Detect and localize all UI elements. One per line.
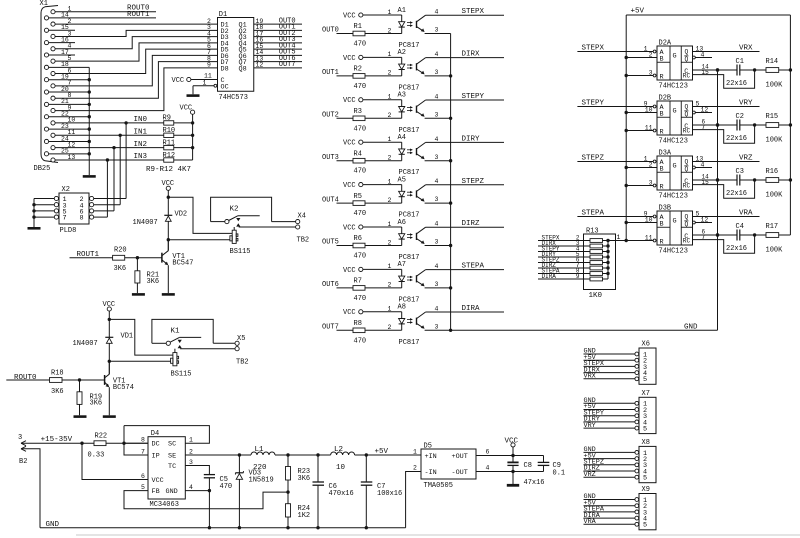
wire X1 pin15 stub — [49, 29, 75, 31]
svg-text:RC: RC — [683, 73, 691, 80]
wire opto emitter bus vertical — [450, 34, 452, 331]
X1 pin 16 — [44, 36, 69, 44]
connector X6 body — [639, 341, 656, 385]
svg-text:K2: K2 — [230, 206, 239, 214]
wire X1 pin24 to ground bus — [49, 140, 91, 143]
wire K2 to X4 — [239, 222, 296, 227]
svg-text:1K2: 1K2 — [298, 512, 311, 520]
wire/net OUT0 from D1 Q1 — [254, 17, 302, 25]
X1 pin 21 — [44, 98, 69, 106]
R13 element 5 — [590, 261, 610, 265]
wire +5V to D3B pin R — [608, 234, 656, 242]
wire D4 SC top loop — [123, 426, 125, 444]
X9 pin 5 net VRA — [584, 518, 648, 530]
wire IN2 to X2 pin 6 — [113, 148, 115, 211]
svg-text:VD1: VD1 — [121, 332, 134, 340]
svg-text:1: 1 — [388, 178, 392, 185]
wire/net STEPY to R13 pin 4 — [538, 246, 590, 253]
wire/net OUT0 to R1 — [322, 27, 353, 35]
X6 pin 1 net GND — [584, 348, 648, 360]
svg-text:Q: Q — [685, 111, 689, 118]
svg-text:BS115: BS115 — [171, 370, 192, 378]
svg-text:1: 1 — [644, 45, 648, 52]
wire VCC to A3 pin1 — [363, 94, 402, 101]
svg-text:10: 10 — [645, 106, 653, 113]
svg-text:X6: X6 — [642, 341, 650, 349]
svg-text:2: 2 — [413, 465, 417, 472]
svg-text:RC: RC — [683, 238, 691, 245]
X7 pin 2 net +5V — [584, 403, 648, 415]
svg-text:OUT4: OUT4 — [322, 196, 339, 204]
wire/net OUT2 from D1 Q3 — [254, 30, 302, 38]
wire X1 pin16 stub — [49, 42, 75, 44]
svg-text:VRY: VRY — [739, 100, 753, 108]
X9 pin 3 net STEPA — [584, 506, 648, 518]
svg-text:VCC: VCC — [343, 140, 356, 148]
wire IN1 to X2 pin 4 — [119, 135, 121, 204]
wire A4 pin3 to emitter bus — [425, 154, 453, 163]
svg-text:A3: A3 — [398, 92, 406, 100]
wire X1 pin6 to D1 input D5 — [55, 49, 217, 73]
X1 pin 25 — [44, 148, 69, 156]
capacitor C8 47x16 — [507, 456, 544, 488]
dc-dc U D5 TMA0505 body — [413, 442, 490, 490]
R13 element 4 — [590, 255, 610, 259]
svg-text:470: 470 — [354, 295, 367, 303]
X1 pin 15 — [44, 24, 69, 32]
wire VCC to BS115 drain path (K1) — [109, 319, 173, 355]
svg-text:R8: R8 — [354, 320, 362, 328]
wire X1 ground bus vertical — [49, 67, 90, 175]
svg-text:D2A: D2A — [659, 39, 672, 47]
wire X1 pin9 to D1 input D8 — [55, 68, 217, 111]
D1 C pin 11 with VCC terminal — [172, 73, 225, 86]
svg-text:1: 1 — [644, 155, 648, 162]
svg-text:IN3: IN3 — [134, 153, 148, 161]
wire X1 pin2 to D1 input D1 — [55, 23, 217, 25]
svg-text:1: 1 — [388, 221, 392, 228]
wire/net VRZ from D3A pin Q — [693, 155, 760, 163]
opto-coupler A2 PC817 — [398, 49, 426, 92]
wire D2B pin C to timing cap — [693, 118, 738, 126]
wire D4 SE output to rail — [185, 454, 251, 456]
X8 pin 5 net VRZ — [584, 471, 648, 483]
one-shot U D3B 74HC123 body — [657, 204, 693, 255]
svg-text:B: B — [660, 166, 664, 174]
svg-text:74HC123: 74HC123 — [659, 193, 688, 201]
wire/net OUT3 from D1 Q4 — [254, 36, 302, 44]
wire K1 to X5 — [180, 343, 235, 348]
svg-text:BC574: BC574 — [113, 384, 134, 392]
svg-text:R3: R3 — [354, 108, 362, 116]
svg-text:Q: Q — [685, 104, 689, 111]
X1 pin 5 — [51, 55, 72, 63]
wire/net OUT1 from D1 Q2 — [254, 24, 302, 32]
svg-text:VRX: VRX — [584, 373, 596, 381]
svg-text:R9-R12 4K7: R9-R12 4K7 — [146, 166, 191, 174]
D2B pin Qbar stub — [693, 106, 713, 114]
wire/net IN3 from X1 pin13 — [55, 153, 164, 162]
wire/net STEPY input to D2B pin A — [577, 100, 656, 108]
X2 pin 4 — [80, 202, 121, 210]
connector X1 DB25 body — [34, 0, 59, 173]
mosfet BS115 (K1) — [171, 349, 192, 379]
svg-text:VRA: VRA — [584, 518, 597, 526]
svg-text:9: 9 — [207, 62, 211, 69]
wire/net VRY from D2B pin Q — [693, 100, 760, 108]
wire A1 pin3 to emitter bus — [425, 27, 451, 34]
wire D3A pin RC loop — [693, 180, 755, 198]
ground symbol below X2 — [28, 227, 41, 230]
wire VCC to BS115 drain path (K2) — [168, 197, 232, 233]
svg-text:4: 4 — [435, 51, 439, 58]
D3A pin Qbar stub — [693, 161, 713, 169]
svg-text:RC: RC — [683, 183, 691, 190]
svg-text:Q: Q — [685, 214, 689, 221]
svg-text:11: 11 — [645, 124, 653, 131]
wire +5V to D2B pin B — [625, 106, 658, 114]
svg-text:B2: B2 — [19, 458, 27, 466]
svg-text:7: 7 — [63, 215, 67, 223]
svg-text:A7: A7 — [398, 261, 406, 269]
wire/net OUT7 from D1 Q8 — [254, 61, 302, 69]
svg-text:R11: R11 — [163, 139, 176, 147]
svg-text:10: 10 — [336, 464, 346, 472]
svg-text:1: 1 — [413, 449, 417, 456]
X1 pin 6 — [51, 67, 72, 75]
latch U D1 74HC573 body — [218, 11, 254, 102]
wire X1 pin5 to D1 input D4 — [55, 43, 217, 61]
X2 pin 2 — [80, 196, 127, 204]
wire/net DIRX to R13 pin 3 — [538, 240, 590, 247]
X2 pin 3 — [34, 202, 67, 210]
svg-text:C2: C2 — [736, 113, 744, 121]
net +15-35V input line — [21, 436, 94, 445]
VCC terminal for opto A4 — [343, 140, 363, 148]
svg-text:4: 4 — [435, 305, 439, 312]
svg-text:D1: D1 — [219, 11, 227, 19]
svg-text:R13: R13 — [586, 227, 599, 235]
X8 pin 1 net GND — [584, 446, 648, 458]
wire D5 +OUT to VCC net — [476, 454, 544, 457]
wire/net OUT6 to R7 — [322, 281, 353, 289]
X1 pin 18 — [44, 61, 69, 69]
svg-text:4: 4 — [435, 178, 439, 185]
wire +5V to D3A pin B — [625, 161, 658, 169]
ground symbol at D1 OC — [187, 94, 200, 97]
opto-coupler A8 PC817 — [398, 304, 426, 347]
svg-text:1: 1 — [388, 306, 392, 313]
one-shot U D2A 74HC123 body — [657, 39, 693, 90]
svg-text:4: 4 — [701, 51, 705, 58]
svg-text:X2: X2 — [62, 186, 70, 194]
svg-text:GND: GND — [684, 324, 698, 332]
svg-text:VCC: VCC — [343, 182, 356, 190]
svg-text:OUT5: OUT5 — [322, 239, 339, 247]
wire +15-35V to D4 VCC pin — [82, 443, 148, 479]
wire ground-return vertical through C pins — [717, 70, 719, 235]
X2 pin 1 — [34, 196, 67, 204]
VCC output terminal — [505, 438, 519, 456]
svg-text:47x16: 47x16 — [524, 479, 545, 487]
X6 pin 3 net STEPX — [584, 360, 648, 372]
wire X1 pin7 to D1 input D6 — [55, 55, 217, 86]
wire +5V to D2B pin R — [625, 124, 656, 132]
svg-text:5: 5 — [643, 376, 647, 384]
wire D3B pin C to timing cap — [693, 228, 738, 236]
svg-text:2: 2 — [388, 282, 392, 289]
one-shot U D3A 74HC123 body — [657, 149, 693, 200]
X1 pin 3 — [51, 30, 72, 38]
X1 pin 23 — [44, 123, 69, 131]
wire A5 pin3 to emitter bus — [425, 196, 453, 205]
svg-text:OUT7: OUT7 — [322, 324, 339, 332]
connector X5 / TB2 — [235, 335, 249, 366]
svg-text:+15-35V: +15-35V — [41, 436, 73, 444]
wire A6 pin3 to emitter bus — [425, 239, 453, 248]
svg-text:1: 1 — [203, 79, 207, 86]
wire +5V to D3A pin R — [625, 179, 656, 187]
opto-coupler A1 PC817 — [398, 7, 426, 50]
wire A4 pin4 output net DIRY — [426, 135, 504, 143]
svg-text:3: 3 — [435, 239, 439, 246]
svg-text:1: 1 — [388, 9, 392, 16]
resistor R14 100K — [766, 58, 793, 89]
svg-text:R5: R5 — [354, 193, 362, 201]
resistor R9 — [163, 115, 193, 125]
svg-text:VCC: VCC — [343, 309, 356, 317]
svg-text:D3B: D3B — [659, 204, 672, 212]
svg-text:470: 470 — [354, 83, 367, 91]
svg-text:10: 10 — [645, 216, 653, 223]
capacitor C4 22x16 — [726, 223, 766, 253]
svg-text:IN2: IN2 — [134, 141, 148, 149]
svg-text:2: 2 — [649, 161, 653, 168]
wire A2 pin3 to emitter bus — [425, 69, 453, 78]
D3B pin Qbar stub — [693, 216, 713, 224]
X1 pin 2 — [51, 18, 72, 26]
wire/net OUT6 from D1 Q7 — [254, 55, 302, 63]
wire X1 pin4 to D1 input D3 — [55, 37, 217, 49]
junction ground-return at D3A — [716, 178, 719, 181]
svg-text:-IN: -IN — [425, 469, 437, 477]
wire D2A pin RC loop — [693, 70, 755, 88]
svg-text:VRZ: VRZ — [739, 155, 753, 163]
svg-text:GND: GND — [166, 488, 178, 496]
svg-text:2: 2 — [388, 112, 392, 119]
svg-text:VCC: VCC — [152, 477, 164, 485]
X1 pin 9 — [51, 104, 72, 112]
D1 pin row D2/Q2 — [207, 24, 263, 36]
capacitor C3 22x16 — [726, 168, 766, 198]
D1 pin row D6/Q6 — [207, 49, 263, 61]
X1 pin 19 — [44, 73, 69, 81]
wire X1 pin14 ROUT1 net — [49, 11, 156, 19]
connector X4 / TB2 — [296, 212, 310, 244]
svg-text:2: 2 — [388, 27, 392, 34]
wire/net IN0 from X1 pin10 — [55, 116, 164, 125]
X1 pin 10 — [51, 117, 76, 125]
capacitor C2 22x16 — [726, 113, 766, 143]
svg-text:3K6: 3K6 — [114, 265, 127, 273]
R13 element 8 — [590, 277, 608, 281]
svg-text:3: 3 — [435, 154, 439, 161]
svg-text:8: 8 — [80, 215, 84, 223]
svg-text:TB2: TB2 — [236, 358, 249, 366]
wire/net STEPX to R13 pin 2 — [538, 235, 590, 242]
svg-text:A5: A5 — [398, 176, 406, 184]
svg-text:8: 8 — [141, 437, 145, 444]
resistor R7 470 — [353, 278, 402, 303]
svg-text:R: R — [660, 128, 664, 136]
wire VCC to A4 pin1 — [363, 136, 402, 143]
svg-text:100K: 100K — [766, 81, 784, 89]
svg-text:VCC: VCC — [343, 12, 356, 20]
svg-text:PC817: PC817 — [399, 339, 420, 347]
svg-text:C1: C1 — [736, 58, 744, 66]
resistor R4 470 — [353, 150, 402, 175]
svg-text:MC34063: MC34063 — [150, 501, 179, 509]
svg-text:VCC: VCC — [343, 267, 356, 275]
svg-text:15: 15 — [702, 179, 710, 186]
wire D4 FB feedback loop — [124, 491, 288, 509]
svg-text:R12: R12 — [163, 152, 176, 160]
wire D3A pin C to timing cap — [693, 173, 738, 181]
wire/net STEPZ input to D3A pin A — [577, 155, 656, 163]
resistor R11 — [163, 139, 193, 149]
svg-text:22x16: 22x16 — [726, 190, 747, 198]
svg-text:STEPZ: STEPZ — [462, 178, 485, 186]
wire VT1 collector to BS115 gate (K2) — [168, 239, 230, 241]
svg-text:X4: X4 — [298, 212, 306, 220]
svg-text:470: 470 — [354, 337, 367, 345]
diode VD1 1N4007 — [73, 332, 134, 374]
wire +5V to D2A pin B — [625, 51, 658, 59]
svg-text:DIRA: DIRA — [462, 305, 481, 313]
X1 pin 17 — [44, 49, 69, 57]
svg-text:2: 2 — [388, 239, 392, 246]
wire/net OUT5 from D1 Q6 — [254, 49, 302, 57]
net ROUT0 to R18 — [6, 374, 49, 382]
svg-text:SC: SC — [168, 441, 176, 449]
svg-text:R20: R20 — [114, 246, 127, 254]
svg-text:+5V: +5V — [631, 8, 645, 16]
wire VCC to A7 pin1 — [363, 263, 402, 270]
connector X7 body — [639, 390, 656, 434]
svg-text:OUT3: OUT3 — [322, 154, 339, 162]
svg-text:5: 5 — [696, 210, 700, 217]
svg-text:OUT7: OUT7 — [279, 61, 296, 69]
wire X1 pin3 to D1 input D2 — [55, 30, 217, 36]
svg-text:+IN: +IN — [425, 453, 437, 461]
svg-text:4: 4 — [435, 93, 439, 100]
svg-text:BS115: BS115 — [230, 248, 251, 256]
VCC terminal above R9-R12 — [180, 104, 195, 160]
wire X1 pin17 stub — [49, 54, 75, 56]
wire D2A pin C to timing cap — [693, 63, 738, 71]
X8 pin 3 net STEPZ — [584, 459, 648, 471]
svg-text:A1: A1 — [398, 7, 406, 15]
wire/net OUT2 to R3 — [322, 112, 353, 120]
svg-text:BC547: BC547 — [172, 260, 193, 268]
svg-text:STEPZ: STEPZ — [582, 155, 605, 163]
svg-text:RC: RC — [683, 128, 691, 135]
svg-text:2: 2 — [388, 324, 392, 331]
svg-text:A2: A2 — [398, 49, 406, 57]
X1 pin 1 — [51, 6, 72, 14]
wire D5 -IN to ground rail — [406, 472, 421, 528]
mosfet BS115 (K2) — [230, 227, 251, 256]
resistor R22 0.33 — [88, 433, 149, 460]
svg-text:74HC573: 74HC573 — [219, 94, 248, 102]
svg-text:B: B — [660, 221, 664, 229]
wire/net OUT4 to R5 — [322, 196, 353, 204]
svg-text:22x16: 22x16 — [726, 135, 747, 143]
svg-text:1: 1 — [388, 94, 392, 101]
svg-text:OUT2: OUT2 — [322, 112, 339, 120]
svg-text:1N4007: 1N4007 — [133, 219, 158, 227]
svg-text:470: 470 — [354, 125, 367, 133]
connector TB2 ground input arrow — [19, 446, 40, 527]
svg-text:74HC123: 74HC123 — [659, 83, 688, 91]
X1 pin 24 — [44, 135, 69, 143]
svg-text:2: 2 — [388, 197, 392, 204]
svg-text:5: 5 — [696, 100, 700, 107]
svg-text:PLD8: PLD8 — [60, 227, 77, 235]
svg-text:R17: R17 — [766, 223, 779, 231]
svg-text:C3: C3 — [736, 168, 744, 176]
VCC terminal for opto A8 — [343, 309, 363, 317]
svg-text:R: R — [660, 73, 664, 81]
R13 element 3 — [590, 250, 610, 254]
ground symbol below VT1 BC547 — [162, 293, 175, 296]
svg-text:+OUT: +OUT — [452, 453, 468, 461]
svg-text:OUT0: OUT0 — [322, 27, 339, 35]
svg-text:22x16: 22x16 — [726, 80, 747, 88]
X1 pin 8 — [51, 92, 72, 100]
junction ground-return at D2A — [716, 68, 719, 71]
svg-text:+5V: +5V — [375, 448, 389, 456]
X8 pin 2 net +5V — [584, 452, 648, 464]
wire A5 pin4 output net STEPZ — [426, 178, 504, 186]
svg-text:TB2: TB2 — [297, 237, 310, 245]
resistor R20 3K6 — [113, 246, 162, 273]
transistor VT1 BC547 — [162, 240, 194, 293]
capacitor C7 100x16 — [361, 455, 402, 529]
capacitor C5 470 — [204, 475, 232, 491]
X7 pin 5 net VRY — [584, 422, 648, 434]
wire A6 pin4 output net DIRZ — [426, 220, 504, 228]
wire X1 pin19 to ground bus — [49, 78, 91, 81]
X6 pin 4 net DIRX — [584, 366, 648, 378]
VCC terminal for opto A7 — [343, 267, 363, 275]
net ROUT1 to R20 — [70, 251, 113, 259]
wire/net VRX from D2A pin Q — [693, 45, 760, 53]
wire/net OUT3 to R4 — [322, 154, 353, 162]
svg-text:R2: R2 — [354, 66, 362, 74]
opto-coupler A7 PC817 — [398, 261, 426, 304]
wire VCC to A5 pin1 — [363, 178, 402, 185]
svg-text:R15: R15 — [766, 113, 779, 121]
svg-text:11: 11 — [645, 234, 653, 241]
capacitor C6 470x16 — [313, 455, 354, 529]
resistor R10 — [163, 127, 193, 137]
svg-text:1: 1 — [388, 136, 392, 143]
resistor R15 100K — [766, 113, 793, 144]
wire A3 pin3 to emitter bus — [425, 111, 453, 120]
X2 pin 7 — [34, 215, 67, 223]
svg-text:A8: A8 — [398, 304, 406, 312]
